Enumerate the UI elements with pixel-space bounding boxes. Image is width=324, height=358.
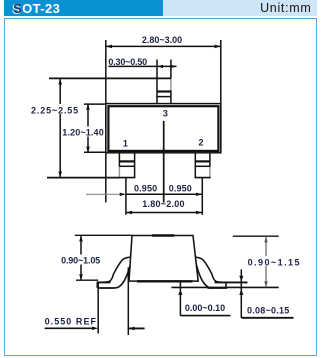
- svg-text:0.08~0.15: 0.08~0.15: [247, 306, 289, 316]
- dimension line 2.25~2.55: [59, 78, 61, 177]
- svg-text:2.25~2.55: 2.25~2.55: [31, 106, 79, 116]
- extension line body top right (side view): [233, 235, 279, 237]
- dimension line 0.90~1.15: [265, 236, 267, 287]
- pin 3 tab left edge (extended up as extension line): [156, 60, 158, 104]
- extension line package top (tab tip): [49, 77, 171, 79]
- svg-text:2.80~3.00: 2.80~3.00: [142, 35, 182, 45]
- dimension line 0.30~0.50: [108, 65, 176, 67]
- extension line foot tip down: [97, 283, 99, 334]
- extension line body bottom left: [84, 151, 106, 153]
- right lead foot bottom thick: [208, 287, 228, 289]
- pin 3 tab right edge: [170, 90, 172, 103]
- body outline inner thick (top view): [108, 106, 218, 151]
- svg-text:1.20~1.40: 1.20~1.40: [62, 128, 104, 138]
- dimension line 0.950 pair: [126, 193, 202, 195]
- svg-text:0.90~1.15: 0.90~1.15: [248, 258, 301, 268]
- label 1.20~1.40: [62, 127, 106, 137]
- dimension line 2.80~3.00: [106, 45, 221, 47]
- pin 3 tab right edge upper extension: [170, 60, 172, 79]
- extension line body top left (side view): [75, 234, 132, 236]
- svg-text:3: 3: [163, 109, 168, 119]
- dimension line 0.90~1.05: [80, 235, 82, 280]
- pin 3 tab right edge grey segment: [170, 78, 172, 90]
- svg-text:1: 1: [123, 138, 128, 148]
- extension line body bottom left (side view): [76, 279, 98, 281]
- right lead lower edge (side view): [197, 265, 214, 288]
- leader 0.550 REF left: [45, 327, 95, 329]
- pin 1 centerline extension: [125, 178, 127, 215]
- leader 0.550 REF right: [128, 327, 144, 329]
- pin 2 centerline extension: [201, 178, 203, 215]
- leader 0.00~0.10: [179, 282, 181, 316]
- svg-text:0.30~0.50: 0.30~0.50: [108, 57, 147, 67]
- header title bar: [4, 0, 163, 16]
- side view body bottom thick segment: [137, 280, 193, 282]
- body outline outer (top view): [106, 104, 221, 153]
- svg-text:0.00~0.10: 0.00~0.10: [185, 303, 225, 313]
- dimension line 0.950 overflow grey: [86, 193, 126, 195]
- label 2.25~2.55: [30, 104, 79, 114]
- dimension line 1.20~1.40: [87, 104, 89, 153]
- pin 1 lead (top view): [118, 153, 120, 167]
- pin 3 tab thin band: [156, 96, 171, 98]
- svg-text:0.90~1.05: 0.90~1.05: [61, 256, 100, 266]
- svg-text:0.950: 0.950: [169, 184, 192, 194]
- dimension line 1.80~2.00: [126, 212, 202, 214]
- label 0.90~1.15: [247, 256, 302, 266]
- svg-text:2: 2: [199, 137, 204, 147]
- left lead foot top thick: [97, 281, 110, 283]
- seating plane line: [171, 286, 278, 288]
- left lead upper edge (side view): [97, 257, 130, 288]
- svg-text:0.950: 0.950: [134, 184, 157, 194]
- header unit bar: [163, 0, 317, 16]
- extension line package bottom (pins tip): [47, 177, 119, 179]
- pin 3 tab thick band: [157, 90, 171, 92]
- extension line body-right vertical: [220, 40, 222, 153]
- package centerline: [163, 121, 165, 203]
- svg-text:1.80~2.00: 1.80~2.00: [142, 199, 185, 209]
- side view body outline: [129, 236, 198, 282]
- left lead lower edge (side view): [114, 265, 131, 288]
- extension line body top left: [84, 103, 106, 105]
- right lead foot top thick merging into 0.08 extension: [215, 281, 248, 283]
- svg-text:0.550 REF: 0.550 REF: [45, 317, 97, 327]
- label 0.90~1.05: [60, 255, 101, 265]
- extension line lead exit down: [127, 268, 129, 336]
- leader 0.08~0.15: [240, 269, 242, 317]
- pin 2 lead (top view): [194, 153, 196, 178]
- right lead upper edge (side view): [196, 257, 226, 288]
- side view body top thick segment: [152, 234, 174, 236]
- left lead foot bottom thick: [97, 287, 114, 289]
- extension line body-left vertical: [105, 40, 107, 203]
